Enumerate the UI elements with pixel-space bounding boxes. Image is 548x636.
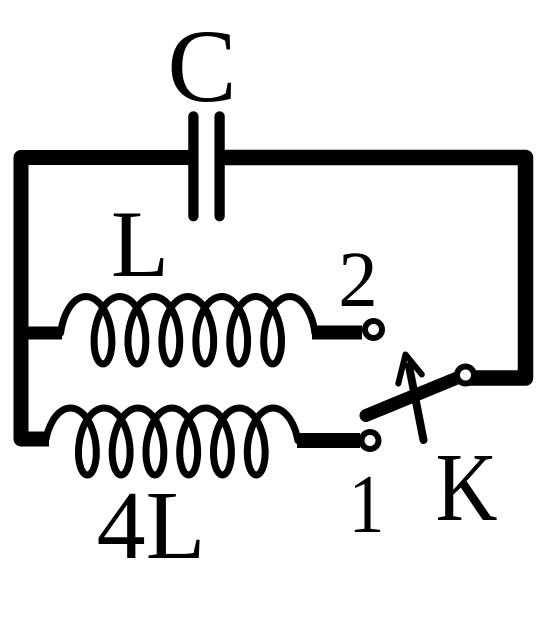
svg-text:C: C: [167, 9, 236, 124]
wire: top-right horizontal, right vertical, wire to switch pivot: [223, 158, 526, 379]
svg-text:2: 2: [338, 237, 378, 324]
svg-text:4L: 4L: [97, 472, 206, 580]
inductor L: [61, 297, 315, 365]
switch K arrow shaft: [409, 366, 424, 440]
svg-text:L: L: [111, 191, 169, 297]
wire: top-left horizontal, left vertical, bottom-left stub to 4L: [21, 158, 190, 440]
switch K pivot circle: [457, 367, 474, 384]
switch K arrowhead: [398, 355, 422, 384]
wire: inductor L to terminal 2: [312, 326, 362, 340]
terminal 2 circle: [365, 321, 382, 338]
inductor 4L: [46, 408, 298, 475]
switch K blade: [366, 375, 466, 416]
svg-text:K: K: [436, 434, 498, 541]
capacitor C: left plate: [188, 116, 198, 216]
svg-text:1: 1: [349, 458, 385, 551]
wire: inductor 4L to terminal 1: [297, 433, 360, 448]
terminal 1 circle: [362, 432, 379, 449]
capacitor C: right plate: [214, 116, 224, 216]
wire: stub from left wire to inductor L: [21, 327, 62, 340]
